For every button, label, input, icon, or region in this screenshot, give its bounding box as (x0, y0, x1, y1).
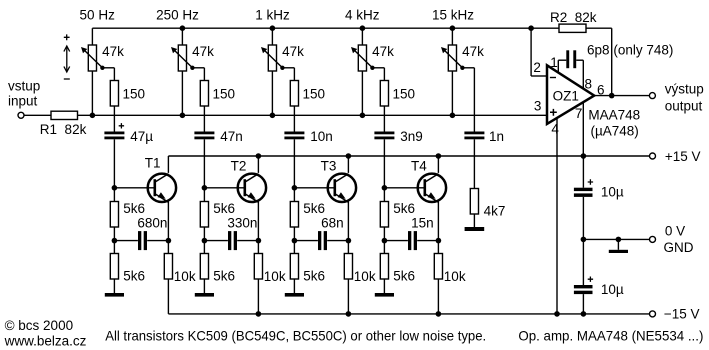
svg-text:3n9: 3n9 (400, 129, 423, 144)
node 10k T4 on -15V rail (436, 311, 442, 317)
svg-text:1 kHz: 1 kHz (255, 8, 290, 23)
svg-text:4 kHz: 4 kHz (345, 8, 380, 23)
capacitor 680n T1 (114, 231, 168, 250)
transistor T3 (328, 174, 356, 203)
0V terminal circle (650, 236, 656, 242)
svg-text:47k: 47k (192, 44, 214, 59)
node collector T4 on +15V rail (436, 153, 442, 159)
resistor 150 band1 (110, 81, 118, 107)
potentiometer P4 47k (351, 28, 375, 115)
node feedback bus to pin 2 (528, 25, 534, 31)
node cap right T1 (166, 238, 172, 244)
svg-text:© bcs 2000: © bcs 2000 (5, 318, 74, 333)
output wire (594, 95, 649, 97)
resistor R1 (51, 111, 78, 119)
svg-text:47µ: 47µ (130, 129, 153, 144)
svg-text:(only 748): (only 748) (613, 42, 673, 57)
output terminal circle (649, 93, 655, 99)
input terminal circle (18, 112, 24, 118)
resistor R2 (559, 24, 586, 32)
resistor 10k T4 (434, 241, 442, 314)
resistor 5k6 upper T2 (200, 188, 208, 241)
wire wiper band1 (102, 68, 114, 81)
svg-text:5k6: 5k6 (303, 269, 325, 284)
wire base node to T1 (114, 187, 153, 189)
svg-text:10µ: 10µ (601, 282, 624, 297)
pin 8 wire (576, 60, 583, 88)
svg-text:10n: 10n (310, 129, 333, 144)
node top bus band5 (450, 25, 456, 31)
wire pin 2 from feedback bus (531, 28, 547, 76)
svg-text:−15 V: −15 V (664, 306, 700, 321)
svg-text:+15 V: +15 V (665, 149, 701, 164)
wire 150 to cap band3 (293, 106, 295, 132)
wire collector T3 (347, 156, 349, 173)
node input bus band5 (450, 113, 456, 119)
wire capacitor 10u upper to 0V node (582, 197, 584, 240)
svg-text:Op. amp. MAA748 (NE5534 ...): Op. amp. MAA748 (NE5534 ...) (518, 327, 703, 343)
svg-text:10k: 10k (354, 269, 376, 284)
node input bus band4 (360, 113, 366, 119)
capacitor 47µ band1 (104, 132, 124, 135)
node cap right T2 (256, 238, 262, 244)
capacitor 6p8 (566, 50, 576, 68)
wire wiper band2 (192, 68, 204, 81)
wire input terminal to R1 (24, 114, 51, 116)
wire 150 to cap band2 (203, 106, 205, 132)
svg-text:10k: 10k (264, 269, 286, 284)
plus mark capacitor 47u (119, 123, 124, 128)
node 10k T2 on -15V rail (256, 311, 262, 317)
wire cap to base node band1 (113, 139, 115, 188)
wire base node to T2 (204, 187, 243, 189)
ground T3 (285, 279, 304, 297)
svg-text:výstup: výstup (665, 82, 704, 97)
resistor 5k6 upper T4 (380, 188, 388, 241)
ground T4 (375, 279, 394, 297)
resistor 5k6 upper T1 (110, 188, 118, 241)
wire cap to base node band4 (383, 139, 385, 188)
capacitor 330n T2 (204, 231, 258, 250)
capacitor 10n band3 (284, 132, 304, 135)
input bus wire R1 to op-amp pin 3 (78, 114, 548, 116)
node 0V (581, 237, 587, 243)
node cap right T4 (436, 238, 442, 244)
capacitor C 10u lower (574, 285, 593, 294)
svg-text:T2: T2 (231, 159, 247, 174)
svg-text:330n: 330n (227, 216, 257, 231)
node cap left T1 (112, 238, 118, 244)
svg-text:5k6: 5k6 (213, 269, 235, 284)
wire emitter T2 (257, 202, 259, 241)
node base T2 (202, 185, 208, 191)
svg-text:5k6: 5k6 (393, 269, 415, 284)
wire 0V node to capacitor 10u lower (582, 239, 584, 285)
svg-text:8: 8 (585, 77, 593, 92)
plus mark capacitor 10u lower (588, 277, 593, 282)
svg-text:5k6: 5k6 (393, 201, 415, 216)
wire collector T4 (437, 156, 439, 173)
svg-text:47k: 47k (372, 44, 394, 59)
svg-text:MAA748: MAA748 (588, 108, 640, 123)
node collector T2 on +15V rail (256, 153, 262, 159)
node cap right T3 (346, 238, 352, 244)
node cap left T4 (382, 238, 388, 244)
node output feedback (609, 93, 615, 99)
capacitor C 10u upper (574, 188, 593, 197)
node base T4 (382, 185, 388, 191)
svg-text:47k: 47k (102, 44, 124, 59)
svg-text:6p8: 6p8 (587, 43, 610, 58)
feedback top bus wire (92, 27, 531, 29)
node top bus band2 (180, 25, 186, 31)
svg-text:68n: 68n (321, 216, 344, 231)
svg-text:250 Hz: 250 Hz (156, 8, 199, 23)
wire emitter T3 (347, 202, 349, 241)
node pin 7 on +15V rail (581, 153, 587, 159)
node cap left T2 (202, 238, 208, 244)
boost/cut indicator minus (64, 78, 70, 80)
pin 7 wire (582, 102, 584, 156)
pin 1 wire (558, 60, 566, 72)
svg-text:5k6: 5k6 (303, 201, 325, 216)
potentiometer P3 47k (261, 28, 285, 115)
op-amp OZ1 (547, 65, 594, 124)
wire capacitor 10u lower to -15V rail (582, 294, 584, 314)
wire base node to T4 (384, 187, 423, 189)
potentiometer P1 47k (81, 28, 105, 115)
-15V terminal circle (650, 311, 656, 317)
resistor 10k T1 (164, 241, 172, 314)
boost/cut indicator plus (64, 34, 70, 40)
svg-text:47n: 47n (220, 129, 243, 144)
pin 4 wire (556, 118, 558, 314)
node base T3 (292, 185, 298, 191)
svg-text:10k: 10k (174, 269, 196, 284)
svg-text:5k6: 5k6 (123, 269, 145, 284)
resistor 4k7 (470, 189, 478, 215)
wire emitter T1 (167, 202, 169, 241)
node pin 4 on -15V rail (554, 311, 560, 317)
svg-text:T1: T1 (145, 156, 161, 171)
wire 150 to cap band4 (383, 106, 385, 132)
wire collector T2 (257, 156, 259, 173)
svg-text:R1 82k: R1 82k (40, 122, 87, 137)
wire 150 to cap band1 (113, 106, 115, 132)
wire R2 to output node (586, 28, 612, 95)
resistor 5k6 lower T4 (380, 241, 388, 279)
capacitor 68n T3 (294, 231, 348, 250)
svg-text:output: output (665, 99, 703, 114)
wire +15V rail to capacitor 10u upper (582, 156, 584, 188)
svg-text:15n: 15n (411, 216, 434, 231)
node collector T3 on +15V rail (346, 153, 352, 159)
potentiometer P5 47k (441, 28, 465, 115)
svg-text:1: 1 (550, 55, 558, 70)
svg-text:4: 4 (551, 121, 559, 136)
wire 1n cap to resistor 4k7 (473, 139, 475, 188)
node base T1 (112, 185, 118, 191)
transistor T2 (238, 174, 266, 203)
ground 0V (609, 239, 628, 253)
wire wiper band5 (462, 68, 474, 132)
svg-text:4k7: 4k7 (484, 203, 506, 218)
node capacitor chain on -15V rail (581, 311, 587, 317)
ground band5 (465, 214, 485, 231)
resistor 150 band2 (200, 81, 208, 107)
+15V collector rail wire (168, 155, 649, 157)
svg-text:50 Hz: 50 Hz (80, 8, 116, 23)
svg-text:T3: T3 (321, 159, 337, 174)
svg-text:input: input (8, 93, 38, 108)
svg-text:7: 7 (575, 106, 583, 121)
svg-text:10µ: 10µ (601, 184, 624, 199)
0V wire (583, 238, 649, 240)
svg-text:3: 3 (534, 99, 542, 114)
transistor T1 (148, 174, 176, 203)
svg-text:15 kHz: 15 kHz (432, 8, 474, 23)
capacitor 15n T4 (384, 231, 438, 250)
-15V rail wire (168, 313, 649, 315)
svg-text:47k: 47k (462, 44, 484, 59)
resistor 5k6 upper T3 (290, 188, 298, 241)
node input bus band3 (270, 113, 276, 119)
wire cap to base node band3 (293, 139, 295, 188)
plus mark capacitor 10u upper (588, 179, 593, 184)
node input bus band2 (180, 113, 186, 119)
svg-text:10k: 10k (444, 269, 466, 284)
resistor 5k6 lower T3 (290, 241, 298, 279)
wire cap to base node band2 (203, 139, 205, 188)
wire base node to T3 (294, 187, 333, 189)
ground T1 (105, 279, 124, 297)
svg-text:680n: 680n (137, 216, 167, 231)
potentiometer P2 47k (171, 28, 195, 115)
node 10k T3 on -15V rail (346, 311, 352, 317)
svg-text:vstup: vstup (8, 78, 40, 93)
svg-text:150: 150 (303, 86, 326, 101)
svg-text:www.belza.cz: www.belza.cz (4, 333, 87, 348)
svg-text:5k6: 5k6 (123, 201, 145, 216)
capacitor 3n9 band4 (374, 132, 394, 135)
wire collector T1 (167, 156, 169, 173)
svg-text:1n: 1n (489, 129, 504, 144)
wire emitter T4 (437, 202, 439, 241)
node top bus band4 (360, 25, 366, 31)
svg-text:150: 150 (213, 86, 236, 101)
resistor 5k6 lower T2 (200, 241, 208, 279)
capacitor 47n band2 (194, 132, 214, 135)
wire wiper band4 (372, 68, 384, 81)
svg-text:(µA748): (µA748) (591, 124, 639, 139)
svg-text:OZ1: OZ1 (553, 89, 579, 104)
node top bus band3 (270, 25, 276, 31)
svg-text:5k6: 5k6 (213, 201, 235, 216)
svg-text:2: 2 (533, 60, 541, 75)
transistor T4 (418, 174, 446, 203)
ground T2 (195, 279, 214, 297)
capacitor 1n band5 (464, 132, 484, 135)
op-amp plus marking (550, 109, 557, 116)
svg-text:47k: 47k (282, 44, 304, 59)
resistor 150 band3 (290, 81, 298, 107)
svg-text:0 V: 0 V (665, 223, 685, 238)
node input bus band1 (90, 113, 96, 119)
svg-text:T4: T4 (411, 159, 427, 174)
svg-text:GND: GND (664, 240, 694, 255)
resistor 150 band4 (380, 81, 388, 107)
+15V terminal circle (650, 153, 656, 159)
wire wiper band3 (282, 68, 294, 81)
resistor 5k6 lower T1 (110, 241, 118, 279)
svg-text:150: 150 (393, 86, 416, 101)
svg-text:R2 82k: R2 82k (550, 10, 597, 25)
svg-text:All transistors KC509 (BC549C,: All transistors KC509 (BC549C, BC550C) o… (105, 327, 486, 343)
boost/cut indicator arrow (64, 46, 70, 72)
node ground stub 0V (616, 237, 622, 243)
resistor 10k T3 (344, 241, 352, 314)
svg-text:150: 150 (123, 86, 146, 101)
op-amp minus marking (550, 77, 556, 79)
node cap left T3 (292, 238, 298, 244)
resistor 10k T2 (254, 241, 262, 314)
wire feedback bus to R2 (531, 27, 559, 29)
